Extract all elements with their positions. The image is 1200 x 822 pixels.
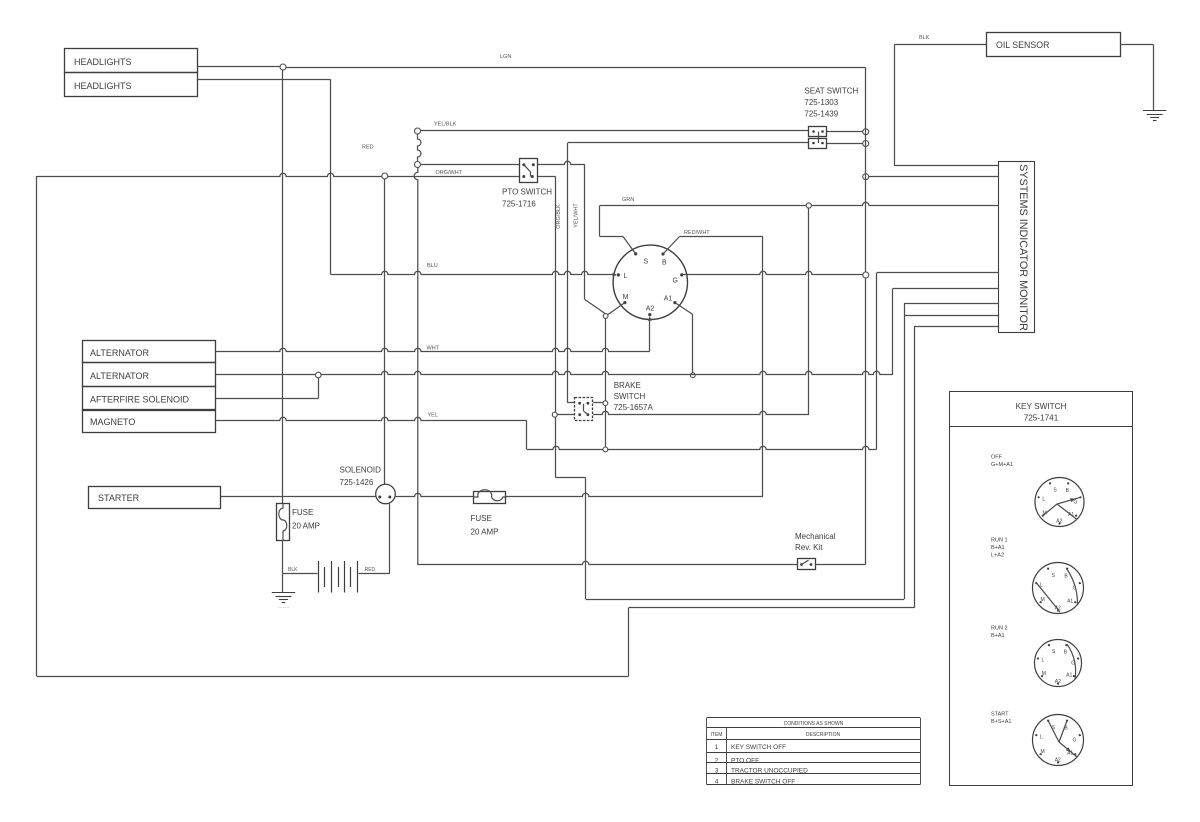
svg-text:LGN: LGN — [500, 54, 511, 60]
svg-text:A2: A2 — [646, 306, 655, 313]
svg-text:RED: RED — [362, 145, 374, 151]
svg-text:PTO SWITCH: PTO SWITCH — [502, 188, 552, 197]
svg-text:Mechanical: Mechanical — [795, 532, 836, 541]
svg-text:YEL/WHT: YEL/WHT — [574, 203, 580, 228]
svg-text:L: L — [1041, 658, 1044, 664]
svg-text:AFTERFIRE SOLENOID: AFTERFIRE SOLENOID — [90, 395, 190, 405]
svg-text:A1: A1 — [664, 296, 673, 303]
svg-text:PTO OFF: PTO OFF — [731, 757, 759, 764]
svg-text:ITEM: ITEM — [711, 732, 723, 738]
svg-text:4: 4 — [715, 778, 719, 785]
svg-text:ORG/WHT: ORG/WHT — [436, 170, 463, 176]
svg-text:L+A2: L+A2 — [991, 553, 1004, 559]
svg-text:S: S — [644, 259, 649, 266]
svg-text:B: B — [662, 260, 667, 267]
svg-text:BRAKE SWITCH OFF: BRAKE SWITCH OFF — [731, 778, 795, 785]
svg-text:725-1426: 725-1426 — [340, 478, 374, 487]
svg-text:Rev. Kit: Rev. Kit — [795, 543, 823, 552]
svg-text:KEY SWITCH OFF: KEY SWITCH OFF — [731, 744, 786, 751]
svg-text:B+A1: B+A1 — [991, 633, 1005, 639]
svg-text:HEADLIGHTS: HEADLIGHTS — [74, 57, 132, 67]
svg-text:A1: A1 — [1066, 672, 1072, 678]
svg-text:RUN 1: RUN 1 — [991, 538, 1008, 544]
svg-text:BLK: BLK — [288, 567, 298, 573]
svg-text:2: 2 — [715, 757, 719, 764]
svg-text:KEY SWITCH: KEY SWITCH — [1016, 402, 1067, 411]
svg-text:TRACTOR UNOCCUPIED: TRACTOR UNOCCUPIED — [731, 767, 808, 774]
svg-text:1: 1 — [715, 744, 719, 751]
svg-text:SYSTEMS INDICATOR MONITOR: SYSTEMS INDICATOR MONITOR — [1017, 164, 1029, 331]
svg-text:725-1741: 725-1741 — [1024, 414, 1059, 423]
svg-text:BRAKE: BRAKE — [614, 381, 641, 390]
svg-text:3: 3 — [715, 767, 719, 774]
svg-text:DESCRIPTION: DESCRIPTION — [806, 732, 841, 738]
svg-text:L: L — [624, 273, 628, 280]
svg-text:RED: RED — [365, 567, 376, 573]
svg-text:A1: A1 — [1067, 598, 1073, 604]
svg-text:BLK: BLK — [919, 35, 930, 41]
svg-text:B+A1: B+A1 — [991, 545, 1005, 551]
svg-text:G: G — [1072, 738, 1076, 744]
svg-text:A2: A2 — [1055, 757, 1061, 763]
svg-text:M: M — [1041, 597, 1045, 603]
svg-text:CONDITIONS AS SHOWN: CONDITIONS AS SHOWN — [784, 721, 844, 727]
svg-text:725-1439: 725-1439 — [804, 110, 838, 119]
svg-text:L: L — [1042, 496, 1045, 502]
svg-text:SEAT SWITCH: SEAT SWITCH — [804, 87, 858, 96]
svg-text:SOLENOID: SOLENOID — [340, 466, 382, 475]
svg-text:RUN 2: RUN 2 — [991, 626, 1008, 632]
svg-text:MAGNETO: MAGNETO — [90, 417, 135, 427]
svg-text:~~~~~: ~~~~~ — [278, 605, 290, 610]
svg-text:20 AMP: 20 AMP — [471, 528, 499, 537]
svg-text:725-1716: 725-1716 — [502, 200, 536, 209]
svg-text:ALTERNATOR: ALTERNATOR — [90, 348, 150, 358]
svg-text:ALTERNATOR: ALTERNATOR — [90, 371, 150, 381]
svg-text:G: G — [1073, 500, 1077, 506]
svg-text:OFF: OFF — [991, 455, 1003, 461]
svg-text:G+M+A1: G+M+A1 — [991, 462, 1013, 468]
svg-text:20 AMP: 20 AMP — [292, 522, 320, 531]
svg-text:725-1303: 725-1303 — [804, 98, 838, 107]
svg-text:B+S+A1: B+S+A1 — [991, 719, 1012, 725]
svg-text:A2: A2 — [1056, 519, 1062, 525]
svg-text:OIL SENSOR: OIL SENSOR — [996, 40, 1049, 50]
svg-text:M: M — [1041, 749, 1045, 755]
svg-text:YEL/BLK: YEL/BLK — [434, 122, 457, 128]
svg-text:M: M — [1042, 671, 1046, 677]
svg-text:START: START — [991, 712, 1009, 718]
svg-text:BLU: BLU — [427, 263, 438, 269]
svg-text:YEL: YEL — [428, 413, 438, 419]
svg-text:WHT: WHT — [427, 346, 440, 352]
svg-text:FUSE: FUSE — [292, 508, 313, 517]
svg-text:M: M — [623, 294, 629, 301]
svg-text:FUSE: FUSE — [471, 514, 492, 523]
svg-text:STARTER: STARTER — [98, 493, 140, 503]
svg-text:L: L — [1040, 734, 1043, 740]
svg-text:HEADLIGHTS: HEADLIGHTS — [74, 81, 132, 91]
svg-text:ORG/BLK: ORG/BLK — [556, 204, 562, 229]
svg-text:RED/WHT: RED/WHT — [684, 230, 710, 236]
svg-text:725-1657A: 725-1657A — [614, 403, 654, 412]
svg-text:GRN: GRN — [622, 197, 634, 203]
svg-text:SWITCH: SWITCH — [614, 392, 646, 401]
svg-text:A2: A2 — [1055, 679, 1061, 685]
svg-text:G: G — [673, 278, 678, 285]
